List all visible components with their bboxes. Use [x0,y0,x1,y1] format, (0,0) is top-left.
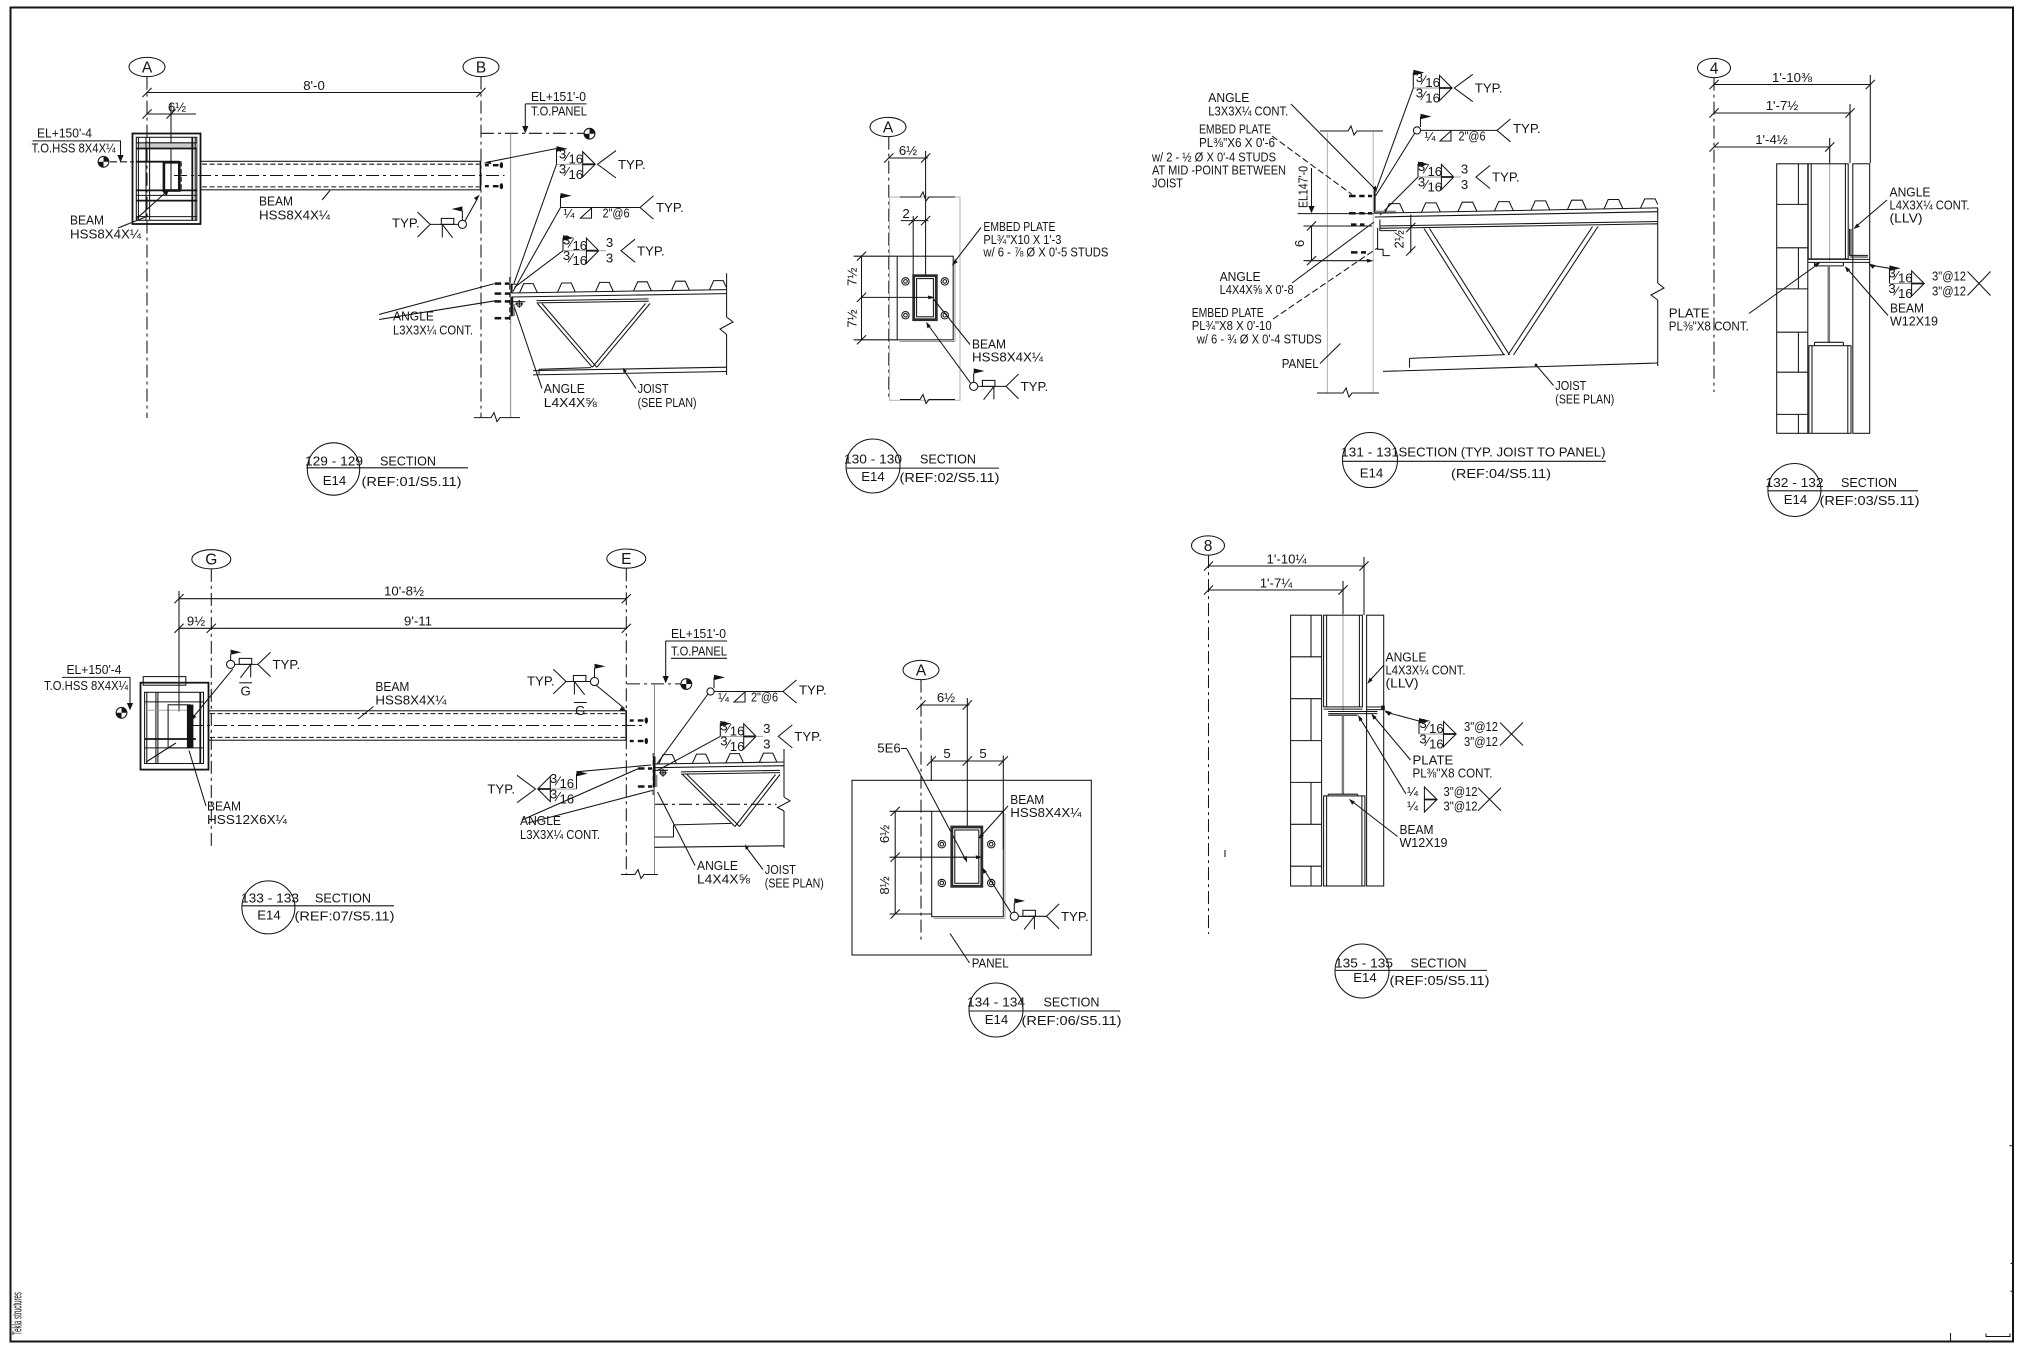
svg-text:L3X3X¼ CONT.: L3X3X¼ CONT. [393,323,473,338]
field weld symbol TYP (130) [926,322,1048,400]
svg-text:¼: ¼ [564,206,576,221]
grid B break mark [474,413,520,422]
metal deck (131) [1375,199,1658,217]
beam label (130) [933,299,1044,365]
lower panel (132) [1809,346,1851,434]
svg-text:(REF:05/S5.11): (REF:05/S5.11) [1390,973,1490,988]
stud circles (134) [938,841,995,887]
svg-text:8: 8 [1204,538,1213,555]
section title 129-129 [305,443,468,495]
outer metal panel (135) [1367,615,1384,886]
upper panel (132) [1808,164,1848,259]
svg-text:2"@6: 2"@6 [1459,128,1486,143]
beam W12X19 (132) [1815,262,1844,345]
grid line 4 [1713,78,1715,392]
grid line E [625,568,627,874]
weld symbol 1/4-1/4 3"@12 (135) [1358,715,1501,814]
svg-text:TYP.: TYP. [618,157,646,172]
svg-text:L4X4X⅝: L4X4X⅝ [697,872,751,887]
svg-text:3"@12: 3"@12 [1932,284,1966,299]
dimension 1'-7 1/4 [1204,575,1348,712]
svg-text:(LLV): (LLV) [1890,211,1923,226]
joist (see plan) [533,273,733,375]
joist label (131) [1535,364,1615,407]
svg-text:EL+151'-0: EL+151'-0 [671,626,726,641]
angle L3X3 above deck (131) [1375,190,1396,214]
dimension 1'-10 3/8 [1709,70,1875,163]
svg-text:EL+150'-4: EL+150'-4 [67,662,122,677]
svg-text:E14: E14 [985,1012,1008,1027]
weld symbol 3/16-3/16 3-3 TYP (133) [658,718,822,770]
svg-text:E: E [621,551,631,568]
svg-text:T.O.HSS 8X4X¼: T.O.HSS 8X4X¼ [44,678,129,693]
metal deck (133) [654,753,784,768]
svg-text:TYP.: TYP. [1513,121,1541,136]
angle L3X3 at deck edge [512,284,517,294]
plate PL3/8X8 (135) [1328,712,1377,714]
section title 133-133 [241,881,395,934]
tick mark [1224,850,1226,857]
svg-text:SECTION: SECTION [315,890,371,905]
svg-text:3"@12: 3"@12 [1444,784,1478,799]
angle L3X3X1/4 label [379,284,496,338]
dimension 1'-7 1/2 [1709,98,1854,163]
weld symbol field TYP (rect+circle+flag) [392,195,480,238]
joist label [623,368,697,410]
svg-text:TYP.: TYP. [1492,170,1520,185]
svg-text:(REF:04/S5.11): (REF:04/S5.11) [1451,466,1551,481]
weld symbol 3/16-3/16 3-3 TYP [515,233,665,288]
dimension 10'-8 1/2 [174,583,631,711]
svg-text:SECTION: SECTION [1841,475,1897,490]
stud note (131) [1151,150,1286,191]
section title 132-132 [1766,464,1920,517]
svg-text:7½: 7½ [845,268,860,286]
dimension 6 1/2 (134) [916,690,972,827]
svg-text:131 - 131: 131 - 131 [1341,445,1399,460]
svg-text:ANGLE: ANGLE [520,813,561,828]
svg-text:HSS8X4X¼: HSS8X4X¼ [972,350,1044,365]
connection bolts (133) [638,769,652,787]
svg-text:6½: 6½ [877,825,892,843]
grid line A (134) [920,680,922,943]
svg-text:3: 3 [763,736,770,751]
svg-text:5: 5 [943,746,950,761]
5E6 note [877,741,967,863]
embed plate (134) [932,811,1005,918]
weld symbol 3/16-3/16 TYP [483,146,645,283]
svg-text:A: A [883,119,894,136]
elevation marker 151'-0 [584,128,595,139]
svg-text:PANEL: PANEL [972,956,1009,971]
angle L4X4X5/8 label (133) [658,792,752,887]
svg-text:6: 6 [1292,240,1307,247]
svg-text:E14: E14 [1784,492,1807,507]
svg-text:130 - 130: 130 - 130 [844,452,902,467]
grid bubble A [129,57,165,76]
svg-text:E14: E14 [1353,970,1376,985]
dim 6 (131) [1292,221,1374,265]
svg-text:L4X4X⅝ X 0'-8: L4X4X⅝ X 0'-8 [1220,282,1294,297]
svg-text:TYP.: TYP. [799,683,827,698]
svg-text:W12X19: W12X19 [1890,314,1938,329]
svg-text:3: 3 [1461,161,1468,176]
svg-text:3: 3 [606,251,613,266]
joist (133) [655,749,791,848]
angle label (132) [1854,185,1970,230]
svg-text:3: 3 [606,235,613,250]
svg-text:TYP.: TYP. [527,674,555,689]
svg-text:129 - 129: 129 - 129 [305,453,363,468]
panel (134) [852,780,1091,955]
connection bolts (131) [1349,196,1372,252]
svg-text:A: A [916,662,927,679]
field weld symbol G (right) [527,664,627,719]
panel break marks (130) [900,192,955,201]
svg-text:BEAM: BEAM [259,194,293,209]
svg-text:135 - 135: 135 - 135 [1335,955,1393,970]
svg-text:G: G [575,703,585,718]
elevation marker 150'-4 [98,156,109,167]
centerline dim 7 1/2 7 1/2 (130) [845,252,935,345]
weld symbol 3/16-3/16 3"@12 (132) [1868,264,1990,302]
angle L4X4X5/8 at deck (133) [654,757,668,788]
angle L4X3X1/4 LLV (132) [1850,229,1868,257]
EL147'-0 elevation line (131) [1296,166,1374,214]
svg-text:Tekla structures: Tekla structures [10,1292,25,1335]
svg-text:(REF:03/S5.11): (REF:03/S5.11) [1820,493,1920,508]
svg-text:134 - 134: 134 - 134 [967,995,1025,1010]
elevation marker (133 right) [681,679,692,690]
svg-text:3: 3 [763,721,770,736]
hidden line at connection (129) [509,277,511,323]
svg-text:BEAM: BEAM [70,213,104,228]
section title 130-130 [844,439,1000,493]
grid bubble B [463,57,499,76]
svg-text:(SEE PLAN): (SEE PLAN) [1555,392,1614,407]
section title 131-131 [1341,433,1606,488]
EL+150'-4 label (133) [44,662,133,710]
angle L4X4X5/8 label (131) [1220,222,1374,297]
svg-text:T.O.PANEL: T.O.PANEL [531,103,587,118]
svg-text:5: 5 [979,746,986,761]
grid bubble A (130) [870,117,906,136]
column HSS12X6 plan detail (133) [141,677,209,770]
panel label (134) [950,934,1009,971]
svg-text:2"@6: 2"@6 [603,206,630,221]
elevation marker (133 left) [116,707,127,718]
svg-text:HSS12X6X¼: HSS12X6X¼ [207,812,288,827]
stud circles (130) [902,278,949,319]
upper panel (135) [1324,615,1363,709]
panel edge line (133) [654,684,656,875]
svg-text:¼: ¼ [1407,798,1419,813]
beam label (133 mid) [358,679,447,719]
weld symbol 3/16-3/16 TYP mirrored (133) [487,765,651,807]
svg-text:SECTION: SECTION [1044,995,1100,1010]
outer metal panel (132) [1853,164,1870,434]
beam W12X19 label (132) [1845,266,1938,329]
embed plate and angle step (131) [1378,220,1397,256]
centerline and dims 6 1/2 / 8 1/2 (134) [877,807,983,919]
metal deck [512,281,727,297]
grid bubble 8 [1192,536,1225,555]
svg-text:w/ 6 - ¾ Ø X 0'-4 STUDS: w/ 6 - ¾ Ø X 0'-4 STUDS [1196,332,1322,347]
svg-text:3"@12: 3"@12 [1464,734,1498,749]
beam end bolts (133) [630,717,648,744]
svg-text:L4X4X⅝: L4X4X⅝ [544,395,598,410]
svg-text:E14: E14 [257,907,280,922]
svg-text:TYP.: TYP. [637,243,665,258]
svg-text:¼: ¼ [1407,784,1419,799]
panel outline (130) [890,197,961,400]
panel edge line at grid B [510,133,512,417]
svg-text:4: 4 [1710,60,1719,77]
svg-text:L3X3X¼ CONT.: L3X3X¼ CONT. [520,827,600,842]
weld symbol 1/4 2"@6 TYP (131) [1376,114,1541,196]
dimension 6 1/2 (130) [884,143,930,274]
dimension 6 1/2 [142,99,196,190]
angle L4X3X1/4 at panel (135) [1367,706,1385,710]
field weld symbol G (left) [191,650,300,721]
svg-text:TYP.: TYP. [392,215,420,230]
svg-text:HSS8X4X¼: HSS8X4X¼ [1010,805,1082,820]
dimension 1'-10 1/4 [1204,551,1369,615]
svg-text:TYP.: TYP. [273,657,301,672]
section title 134-134 [967,983,1122,1037]
EL+150'-4 T.O.HSS label [32,126,135,163]
svg-text:8'-0: 8'-0 [303,78,325,93]
svg-text:1'-10⅜: 1'-10⅜ [1772,70,1813,85]
plate label (135) [1371,714,1492,781]
svg-text:(SEE PLAN): (SEE PLAN) [638,395,697,410]
svg-text:SECTION: SECTION [380,453,436,468]
beam label (134) [978,792,1082,839]
svg-text:A: A [142,59,153,76]
dimension 8'-0 [142,78,485,97]
svg-text:L3X3X¼ CONT.: L3X3X¼ CONT. [1208,104,1288,119]
svg-text:PANEL: PANEL [1282,356,1319,371]
svg-text:3"@12: 3"@12 [1464,719,1498,734]
weld symbol 3/16-3/16 TYP (131) [1376,70,1502,191]
grid bubble G [192,550,231,569]
svg-text:132 - 132: 132 - 132 [1766,475,1824,490]
svg-text:EL147'-0: EL147'-0 [1296,166,1311,208]
section title 135-135 [1335,944,1490,998]
grid bubble 4 [1698,58,1731,77]
EL+151'-0 T.O.PANEL label [481,89,587,133]
panel edge lines (131) [1326,133,1328,393]
svg-text:HSS8X4X¼: HSS8X4X¼ [70,227,142,242]
svg-text:5E6: 5E6 [877,741,900,756]
svg-text:TYP.: TYP. [794,729,822,744]
angle L3X3X1/4 label (131) [1208,90,1376,192]
right border tick marks [1951,1146,2014,1341]
grid line G [210,569,212,846]
svg-text:8½: 8½ [877,876,892,894]
svg-text:(REF:02/S5.11): (REF:02/S5.11) [900,470,1000,485]
grid bubble A (134) [903,660,939,679]
svg-text:G: G [240,684,250,699]
svg-text:10'-8½: 10'-8½ [384,583,424,598]
masonry wall (135) [1291,615,1322,886]
beam end bolts [485,162,503,189]
grid line A [146,77,148,418]
svg-text:TYP.: TYP. [1475,81,1503,96]
svg-text:1'-7½: 1'-7½ [1766,98,1799,113]
svg-text:E14: E14 [1360,466,1383,481]
beam W12X19 (135) [1328,715,1357,796]
svg-text:(REF:06/S5.11): (REF:06/S5.11) [1022,1013,1122,1028]
svg-text:TYP.: TYP. [1061,909,1089,924]
svg-text:JOIST: JOIST [638,381,669,396]
svg-text:(REF:07/S5.11): (REF:07/S5.11) [295,908,395,923]
panel break marks (131) [1320,126,1383,135]
svg-text:9½: 9½ [187,613,205,628]
dim 2 1/2 (131) [1392,215,1416,256]
svg-text:(SEE PLAN): (SEE PLAN) [765,876,824,891]
svg-text:TYP.: TYP. [487,782,515,797]
svg-text:SECTION: SECTION [920,452,976,467]
beam label BEAM HSS8X4X1/4 (mid-span) [259,191,331,223]
svg-text:SECTION: SECTION [1411,955,1467,970]
svg-text:6½: 6½ [899,143,917,158]
svg-text:3: 3 [1461,177,1468,192]
beam HSS8X4X1/4 tube end (130) [914,276,937,320]
grid E break mark (133) [621,870,658,879]
column cap plan detail (HSS column at grid A) [133,134,201,225]
svg-text:EL+151'-0: EL+151'-0 [531,89,586,104]
svg-text:1'-4½: 1'-4½ [1755,132,1788,147]
svg-text:2: 2 [902,206,909,221]
svg-text:B: B [476,59,486,76]
svg-text:T.O.PANEL: T.O.PANEL [671,644,727,659]
svg-text:7½: 7½ [845,309,860,327]
angle L4X4X5/8 label [515,308,598,410]
plate PL3/8X8 (132) [1808,259,1870,262]
joist label (133) [745,845,824,891]
grid line B [480,77,482,418]
svg-text:PL⅜"X8 CONT.: PL⅜"X8 CONT. [1669,319,1749,334]
svg-text:2"@6: 2"@6 [751,690,778,705]
beam HSS8X4X1/4 tube end (134) [952,827,982,886]
svg-text:¼: ¼ [718,690,730,705]
svg-text:2½: 2½ [1392,230,1407,248]
svg-text:JOIST: JOIST [1152,176,1183,191]
lower panel (135) [1324,796,1365,886]
beam HSS8X4X1/4 elevation [174,161,505,190]
dimension 2 (130) [901,206,931,275]
beam HSS8X4X1/4 elevation (133) [190,711,646,740]
grid bubble E [607,549,646,568]
svg-text:G: G [205,552,217,569]
angle label (135) [1367,650,1465,691]
dimensions 5 5 (134) [927,746,1008,849]
svg-text:EL+150'-4: EL+150'-4 [37,126,92,141]
connection bolts at panel [495,284,510,319]
svg-text:E14: E14 [861,469,884,484]
svg-text:W12X19: W12X19 [1400,835,1448,850]
weld symbol 1/4 2"@6 TYP (133) [657,675,827,765]
plate label (132) [1669,262,1821,333]
svg-text:SECTION (TYP. JOIST TO PANEL): SECTION (TYP. JOIST TO PANEL) [1399,445,1606,460]
svg-text:TYP.: TYP. [656,200,684,215]
svg-text:T.O.HSS 8X4X¼: T.O.HSS 8X4X¼ [32,141,117,156]
svg-text:TYP.: TYP. [1021,379,1049,394]
hidden line at connection (133) [652,753,654,795]
svg-text:1'-7¼: 1'-7¼ [1260,575,1294,590]
svg-text:3"@12: 3"@12 [1932,268,1966,283]
svg-text:HSS8X4X¼: HSS8X4X¼ [375,693,447,708]
svg-text:E14: E14 [323,473,346,488]
svg-text:PL⅜"X8 CONT.: PL⅜"X8 CONT. [1413,766,1493,781]
embed plate label lower (131) [1192,248,1378,347]
angle L3X3X1/4 label (133) [520,768,654,842]
svg-text:9'-11: 9'-11 [404,613,432,628]
weld symbol 1/4 2"@6 TYP [513,193,684,292]
grid line 8 [1208,555,1210,934]
svg-text:¼: ¼ [1425,129,1437,144]
masonry wall (132) [1777,164,1808,434]
weld symbol 3/16-3/16 3-3 TYP (131) [1380,159,1520,215]
svg-text:PL⅜"X6 X 0'-6: PL⅜"X6 X 0'-6 [1199,135,1275,150]
angle L4X4X5/8 below deck [512,297,525,316]
joist (131) [1380,208,1664,371]
embed plate (130) [897,256,955,341]
weld symbol 3/16-3/16 3"@12 (135) [1384,710,1523,751]
EL+151'-0 label (133) [627,626,727,684]
svg-text:6½: 6½ [937,690,955,705]
svg-text:ANGLE: ANGLE [544,381,585,396]
dimension 1'-4 1/2 [1709,132,1834,261]
embed plate label upper (131) [1199,122,1352,195]
svg-text:1'-10¼: 1'-10¼ [1267,551,1308,566]
beam HSS12X6 label [189,751,288,828]
svg-text:HSS8X4X¼: HSS8X4X¼ [259,208,331,223]
beam W12X19 label (135) [1349,799,1448,850]
svg-text:133 - 133: 133 - 133 [241,890,299,905]
svg-text:(REF:01/S5.11): (REF:01/S5.11) [362,474,462,489]
panel label (131) [1282,344,1341,372]
column label BEAM HSS8X4X1/4 (left) [70,213,148,242]
svg-text:w/ 6 - ⅞ Ø X 0'-5 STUDS: w/ 6 - ⅞ Ø X 0'-5 STUDS [983,245,1109,260]
field weld symbol TYP (134) [982,867,1088,929]
svg-text:(LLV): (LLV) [1386,676,1419,691]
grid line A (130) [888,137,890,400]
dimension 9 1/2 and 9'-11 [174,613,631,633]
embed plate label (130) [952,219,1109,266]
svg-text:3"@12: 3"@12 [1444,799,1478,814]
